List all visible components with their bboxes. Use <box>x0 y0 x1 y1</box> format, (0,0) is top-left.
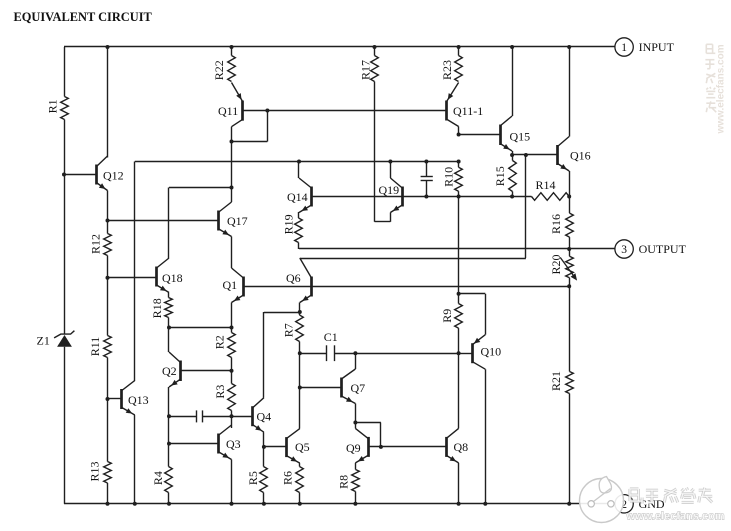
svg-text:C1: C1 <box>324 330 338 344</box>
svg-text:EQUIVALENT CIRCUIT: EQUIVALENT CIRCUIT <box>14 10 153 24</box>
svg-text:Q8: Q8 <box>454 440 469 454</box>
svg-text:Q2: Q2 <box>162 364 177 378</box>
svg-text:OUTPUT: OUTPUT <box>639 242 687 256</box>
svg-text:R3: R3 <box>213 385 227 399</box>
svg-text:Q11: Q11 <box>218 104 238 118</box>
svg-text:R10: R10 <box>442 167 456 187</box>
svg-text:R5: R5 <box>246 471 260 485</box>
svg-text:R13: R13 <box>88 461 102 481</box>
svg-text:Q3: Q3 <box>226 437 241 451</box>
svg-text:Q18: Q18 <box>162 271 183 285</box>
svg-text:R15: R15 <box>493 166 507 186</box>
svg-text:R8: R8 <box>337 475 351 489</box>
svg-text:R2: R2 <box>212 335 226 349</box>
svg-text:R22: R22 <box>212 60 226 80</box>
svg-text:INPUT: INPUT <box>639 40 675 54</box>
svg-text:R16: R16 <box>549 214 563 234</box>
svg-text:www.elecfans.com: www.elecfans.com <box>716 44 727 134</box>
svg-text:Q19: Q19 <box>379 183 400 197</box>
svg-text:R19: R19 <box>282 214 296 234</box>
svg-text:1: 1 <box>621 42 627 54</box>
svg-text:R6: R6 <box>280 471 294 485</box>
svg-text:Q17: Q17 <box>227 214 248 228</box>
svg-text:R18: R18 <box>150 298 164 318</box>
svg-text:Q15: Q15 <box>510 130 531 144</box>
svg-text:R12: R12 <box>89 234 103 254</box>
svg-text:R21: R21 <box>549 371 563 391</box>
svg-text:R1: R1 <box>46 99 60 113</box>
svg-text:Q11-1: Q11-1 <box>453 104 483 118</box>
svg-text:www.elecfans.com: www.elecfans.com <box>626 511 725 523</box>
svg-text:Q10: Q10 <box>481 345 502 359</box>
svg-text:Z1: Z1 <box>37 334 50 348</box>
svg-text:Q12: Q12 <box>103 169 124 183</box>
svg-text:R17: R17 <box>358 60 372 80</box>
svg-text:Q13: Q13 <box>128 393 149 407</box>
svg-text:Q1: Q1 <box>223 278 238 292</box>
svg-text:R4: R4 <box>151 471 165 485</box>
svg-text:Q4: Q4 <box>257 410 272 424</box>
svg-text:Q9: Q9 <box>346 441 361 455</box>
svg-text:Q5: Q5 <box>295 440 310 454</box>
svg-text:Q7: Q7 <box>351 381 366 395</box>
svg-text:R20: R20 <box>549 254 563 274</box>
svg-text:R23: R23 <box>440 60 454 80</box>
svg-text:R7: R7 <box>281 323 295 337</box>
svg-text:Q14: Q14 <box>287 190 308 204</box>
svg-text:R9: R9 <box>440 309 454 323</box>
svg-text:R14: R14 <box>535 178 555 192</box>
svg-text:Q16: Q16 <box>570 149 591 163</box>
svg-text:R11: R11 <box>88 337 102 357</box>
svg-text:Q6: Q6 <box>286 271 301 285</box>
svg-text:3: 3 <box>621 244 627 256</box>
